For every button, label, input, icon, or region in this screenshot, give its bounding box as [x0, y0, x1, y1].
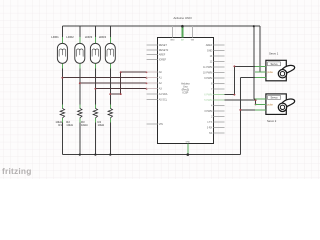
pin A3 (left)	[147, 88, 158, 90]
pin D2 (right)	[214, 116, 225, 118]
pin D3 PWM (right)	[214, 110, 225, 112]
svg-text:Servo 1: Servo 1	[269, 52, 279, 56]
pin 5V (top)	[181, 26, 183, 37]
servo 2 horn	[278, 99, 294, 112]
pin D1 TX (right)	[214, 121, 225, 123]
pin GND (top)	[171, 26, 173, 37]
svg-text:A5 SCL: A5 SCL	[159, 99, 168, 102]
svg-text:1 TX: 1 TX	[207, 121, 212, 124]
pin D4 (right)	[214, 105, 225, 107]
junction 5V pin on bus	[181, 25, 184, 28]
pin D7 (right)	[214, 88, 225, 90]
photoresistor LDR2	[75, 43, 85, 63]
wire 5V bus to LDR4	[109, 26, 111, 37]
pin DAREF (right)	[214, 44, 225, 46]
svg-text:GND: GND	[170, 40, 175, 42]
wire 5V bus to LDR3	[94, 26, 96, 37]
svg-text:fritzing: fritzing	[2, 166, 32, 176]
pin servo1 ground	[255, 71, 266, 73]
junction on 5V bus at servo2 drop	[253, 25, 255, 27]
svg-text:6 PWM: 6 PWM	[204, 94, 212, 97]
svg-text:10kΩ: 10kΩ	[66, 123, 73, 127]
wire GND bottom bus	[62, 154, 240, 156]
wire divider3 to A3	[95, 88, 146, 90]
svg-text:R1: R1	[58, 123, 62, 127]
svg-text:10 PWM: 10 PWM	[203, 72, 212, 75]
svg-text:LDR1: LDR1	[51, 35, 59, 39]
pin D6 PWM (right)	[214, 94, 225, 96]
svg-text:GND: GND	[207, 50, 213, 53]
pin RESET2 (left)	[147, 49, 158, 51]
pin A5 SCL (left)	[147, 99, 158, 101]
wire divider2 to A2	[80, 82, 147, 84]
pin D9 PWM (right)	[214, 77, 225, 79]
svg-text:RESET: RESET	[159, 44, 168, 47]
pin VIN (top)	[191, 26, 193, 37]
wire LDR3 to R3	[94, 63, 96, 68]
pin A1 (left)	[147, 77, 158, 79]
pin D11 PWM (right)	[214, 66, 225, 68]
pin servo1 pulse	[255, 76, 266, 78]
wire R3 to GND bus	[94, 118, 96, 122]
junction servo2 ground	[239, 109, 241, 111]
pin D5 PWM (right)	[214, 99, 225, 101]
resistor R2	[78, 108, 82, 118]
wire R2 to GND bus	[79, 118, 81, 122]
wire 5V drop to Servo 2 power	[253, 26, 255, 99]
svg-text:pulse: pulse	[267, 104, 273, 106]
pin D10 PWM (right)	[214, 72, 225, 74]
pin servo2 ground	[255, 103, 266, 105]
pin D8 (right)	[214, 83, 225, 85]
svg-text:IOREF: IOREF	[159, 58, 167, 61]
pin RESET (left)	[147, 44, 158, 46]
svg-text:LDR3: LDR3	[85, 35, 93, 39]
pin servo2 pulse	[255, 109, 266, 111]
resistor R1	[60, 108, 64, 118]
svg-text:SS: SS	[209, 132, 213, 135]
servo motor Servo 2	[266, 94, 286, 115]
wire 5V bus to LDR2	[79, 26, 81, 37]
resistor R3	[93, 108, 97, 118]
pin D12 (right)	[214, 61, 225, 63]
pin DSS (right)	[214, 132, 225, 134]
svg-text:AREF: AREF	[206, 44, 213, 47]
wire R4 to GND bus	[109, 118, 111, 122]
pin A2 (left)	[147, 82, 158, 84]
photoresistor LDR1	[57, 43, 67, 63]
svg-text:pulse: pulse	[267, 72, 273, 74]
svg-text:Servo: Servo	[270, 62, 278, 66]
svg-text:10kΩ: 10kΩ	[98, 123, 105, 127]
wire 5V drop to Servo 1 power	[259, 26, 261, 72]
wire servo ground return	[239, 77, 241, 154]
svg-text:AREF: AREF	[159, 54, 166, 57]
pin D0 RX (right)	[214, 127, 225, 129]
pin IOREF (left)	[147, 58, 158, 60]
junction column 2 on GND bus	[79, 154, 81, 156]
svg-text:A4 SDA: A4 SDA	[159, 93, 168, 96]
wire LDR2 to R2	[79, 63, 81, 68]
pin servo1 power	[255, 65, 266, 67]
junction column 4 on GND bus	[109, 154, 111, 156]
wire Servo 2 ground branch	[240, 109, 266, 111]
junction column 3 on GND bus	[94, 154, 96, 156]
svg-text:0 RX: 0 RX	[207, 127, 213, 130]
wire LDR4 to R4	[109, 63, 111, 68]
photoresistor LDR3	[90, 43, 100, 63]
resistor R4	[108, 108, 112, 118]
pin VIN (left bottom)	[147, 123, 158, 125]
svg-text:RESET2: RESET2	[159, 49, 169, 52]
pin A0 (left)	[147, 71, 158, 73]
wire 5V top bus	[62, 25, 259, 27]
svg-text:5 PWM: 5 PWM	[204, 99, 212, 102]
servo 1 horn	[278, 65, 294, 78]
servo motor Servo 1	[266, 60, 286, 81]
svg-text:ICSP: ICSP	[182, 92, 188, 95]
pin GND (bottom)	[187, 144, 189, 155]
svg-text:VIN: VIN	[191, 40, 195, 42]
svg-text:Arduino UNO: Arduino UNO	[173, 16, 192, 20]
svg-text:GND: GND	[186, 142, 191, 144]
wire D6 to Servo 1 pulse	[224, 94, 234, 96]
wire divider4 to A0	[110, 93, 120, 95]
svg-text:10kΩ: 10kΩ	[81, 123, 88, 127]
svg-text:11 PWM: 11 PWM	[203, 66, 212, 69]
wire LDR1 to R1	[61, 63, 63, 68]
svg-text:Servo: Servo	[270, 96, 278, 100]
wire D5 to Servo 2 pulse	[224, 99, 255, 101]
svg-text:LDR2: LDR2	[66, 35, 74, 39]
pin A4 SDA (left)	[147, 93, 158, 95]
wire R1 to GND bus	[61, 118, 63, 122]
wire 5V bus to LDR1	[61, 26, 63, 37]
pin servo2 power	[255, 98, 266, 100]
pin D13 (right)	[214, 55, 225, 57]
pin AREF (left)	[147, 54, 158, 56]
svg-text:9 PWM: 9 PWM	[204, 77, 212, 80]
svg-text:Servo 2: Servo 2	[267, 119, 277, 123]
svg-text:3 PWM: 3 PWM	[204, 110, 212, 113]
wire divider1 to A1	[62, 77, 146, 79]
photoresistor LDR4	[105, 43, 115, 63]
svg-text:VIN: VIN	[159, 123, 163, 126]
Arduino UNO board U1 body	[158, 38, 214, 144]
svg-text:LDR4: LDR4	[99, 35, 107, 39]
pin DGND (right)	[214, 50, 225, 52]
junction GND pin on bus	[187, 153, 190, 156]
